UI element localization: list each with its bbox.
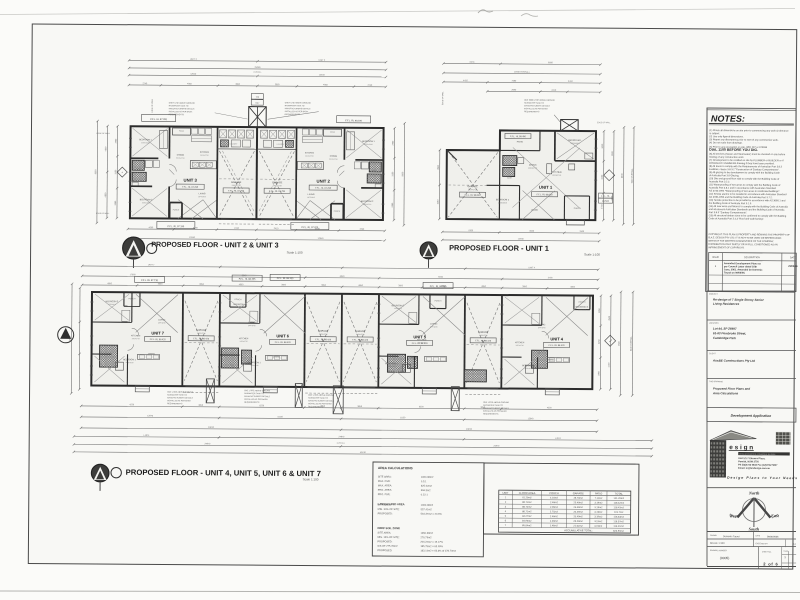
svg-text:THIS DRAWING: THIS DRAWING [709, 380, 723, 383]
svg-text:KITCHEN: KITCHEN [305, 152, 315, 154]
svg-text:7.11m2: 7.11m2 [595, 497, 603, 500]
svg-text:366.3m2: 366.3m2 [421, 489, 431, 492]
svg-text:F.F.L. RL 98.420: F.F.L. RL 98.420 [193, 338, 210, 340]
svg-text:70b: 70b [256, 97, 259, 99]
svg-text:REQUIREMENTS: REQUIREMENTS [285, 114, 301, 116]
svg-text:12640: 12640 [190, 74, 197, 76]
svg-text:3150x3010: 3150x3010 [578, 309, 586, 311]
svg-text:MANUFACTURER'S DETAILS: MANUFACTURER'S DETAILS [483, 407, 509, 410]
svg-text:F.F.L. RL 98.420: F.F.L. RL 98.420 [150, 339, 167, 341]
svg-text:24870: 24870 [466, 429, 473, 431]
svg-text:3.19m2: 3.19m2 [594, 520, 603, 523]
svg-text:557.41m2: 557.41m2 [421, 508, 433, 511]
svg-text:Unit 5/1-7 Elouera Place,: Unit 5/1-7 Elouera Place, [738, 457, 765, 460]
svg-text:3.19m2: 3.19m2 [594, 501, 603, 504]
svg-text:BEDROOM 1: BEDROOM 1 [139, 139, 152, 141]
svg-text:2.46m2: 2.46m2 [550, 501, 559, 504]
svg-text:25.49m2: 25.49m2 [574, 501, 584, 504]
svg-text:RAINWATER TANK TO: RAINWATER TANK TO [483, 404, 503, 407]
svg-text:F.F.L. RL 99.030: F.F.L. RL 99.030 [537, 194, 554, 196]
svg-text:UNIT 3: UNIT 3 [184, 178, 198, 183]
svg-text:9300 OVERALL: 9300 OVERALL [630, 335, 633, 351]
svg-text:2.46m2: 2.46m2 [550, 506, 559, 509]
svg-text:OPTIONS: OPTIONS [198, 196, 206, 198]
svg-text:3150x3010: 3150x3010 [498, 202, 507, 204]
svg-text:UNIT 6: UNIT 6 [276, 333, 289, 338]
svg-text:2410x2710: 2410x2710 [516, 345, 524, 347]
svg-text:NOTES:: NOTES: [711, 114, 745, 124]
svg-text:3150x3010: 3150x3010 [364, 144, 372, 146]
svg-text:PATIO: PATIO [595, 491, 602, 495]
svg-text:UNIT 4: UNIT 4 [550, 336, 563, 341]
svg-text:South: South [749, 526, 760, 531]
svg-text:Email: in@bmdesign.com.au: Email: in@bmdesign.com.au [738, 468, 770, 470]
svg-text:REQUIREMENTS: REQUIREMENTS [167, 403, 183, 405]
svg-text:(4) Do not scale from drawings: (4) Do not scale from drawings. [709, 141, 743, 144]
svg-text:MIN. 15% OF SITE:: MIN. 15% OF SITE: [377, 536, 399, 539]
svg-text:5450x2710: 5450x2710 [319, 334, 327, 336]
svg-text:L4974: L4974 [144, 435, 151, 437]
svg-text:GARAGE: GARAGE [478, 331, 488, 334]
svg-text:ACCUMULATIVE TOTAL:: ACCUMULATIVE TOTAL: [564, 529, 593, 532]
svg-text:09/09/2006: 09/09/2006 [767, 536, 779, 538]
svg-text:ONE LITRE ABOVE GROUND: ONE LITRE ABOVE GROUND [483, 401, 509, 404]
svg-text:3.19m2: 3.19m2 [594, 506, 603, 509]
svg-text:185.79m2 = 65.09%: 185.79m2 = 65.09% [420, 545, 443, 548]
svg-text:DRAWING NUMBER: DRAWING NUMBER [710, 549, 728, 552]
svg-text:Tourel on 09/06/06.: Tourel on 09/06/06. [724, 271, 746, 274]
svg-text:Domenic Tauroi: Domenic Tauroi [723, 535, 740, 538]
svg-text:EDGE OF WALL: EDGE OF WALL [151, 99, 154, 112]
svg-text:UNIT 7: UNIT 7 [148, 264, 155, 266]
svg-text:12640: 12640 [147, 415, 154, 417]
svg-text:FLOOR AREA: FLOOR AREA [519, 491, 536, 495]
svg-text:3010x2710: 3010x2710 [176, 158, 184, 160]
svg-text:PRO. AREA:: PRO. AREA: [378, 489, 392, 492]
svg-text:EDGE OF WALL: EDGE OF WALL [96, 212, 109, 215]
svg-text:F.F.L. HL 98.335: F.F.L. HL 98.335 [239, 279, 256, 281]
svg-text:86.72m2: 86.72m2 [522, 506, 532, 509]
svg-text:84.95m2: 84.95m2 [522, 520, 532, 523]
svg-text:4.16m2: 4.16m2 [550, 496, 559, 499]
svg-text:MANUFACTURER'S DETAILS: MANUFACTURER'S DETAILS [285, 107, 311, 110]
svg-text:823.94m2: 823.94m2 [613, 530, 624, 533]
svg-text:F.F.L. HL 97.295: F.F.L. HL 97.295 [315, 188, 332, 190]
svg-text:DESCRIPTION: DESCRIPTION [744, 257, 760, 259]
svg-text:24870: 24870 [204, 443, 211, 445]
svg-text:ISSUE: ISSUE [783, 551, 788, 553]
svg-text:F.F.L. RL 97.795: F.F.L. RL 97.795 [269, 191, 286, 193]
svg-text:SITE AREA:: SITE AREA: [378, 504, 392, 507]
svg-text:Development Application: Development Application [731, 414, 772, 418]
svg-text:F.F.L. RL 97.735: F.F.L. RL 97.735 [141, 280, 158, 282]
svg-text:SITE AREA:: SITE AREA: [378, 476, 392, 479]
svg-text:KITCHEN: KITCHEN [131, 335, 141, 337]
svg-text:F.F.L. HL 97.295: F.F.L. HL 97.295 [150, 119, 167, 121]
svg-text:INSTALLED AS PER BASIX: INSTALLED AS PER BASIX [167, 399, 191, 402]
svg-text:F.F.L. RL 98.420: F.F.L. RL 98.420 [275, 342, 292, 344]
svg-text:5450x2710: 5450x2710 [468, 189, 477, 191]
svg-text:GARAGE: GARAGE [573, 491, 584, 495]
svg-text:F.F.L. RL 99.040: F.F.L. RL 99.040 [465, 195, 482, 197]
svg-text:UNIT 3: UNIT 3 [190, 59, 197, 61]
svg-text:3150x3010: 3150x3010 [126, 362, 134, 364]
svg-text:564.37m2 = 20.3%: 564.37m2 = 20.3% [421, 513, 443, 516]
svg-text:24870: 24870 [493, 445, 500, 447]
svg-text:11150: 11150 [400, 417, 406, 419]
svg-text:INSTALLED AS PER BASIX: INSTALLED AS PER BASIX [524, 107, 548, 110]
svg-text:OVERALL: OVERALL [253, 71, 261, 74]
svg-text:2410x2710: 2410x2710 [200, 155, 208, 157]
svg-text:BEDROOM 1: BEDROOM 1 [362, 141, 375, 143]
svg-text:118.42m2: 118.42m2 [614, 506, 625, 509]
svg-text:PROPOSED:: PROPOSED: [377, 540, 392, 543]
svg-text:7017: 7017 [255, 103, 259, 105]
svg-text:2.46m2: 2.46m2 [550, 524, 559, 527]
svg-text:3.19m2: 3.19m2 [594, 511, 603, 514]
svg-text:113.21m2: 113.21m2 [613, 525, 624, 528]
svg-text:INSTALLED AS PER BASIX: INSTALLED AS PER BASIX [244, 398, 268, 401]
svg-text:MAX. AREA:: MAX. AREA: [378, 484, 392, 487]
svg-text:Ph (02)4732 5832 Fax (02)4: Ph (02)4732 5832 Fax (02)4732 5837 [738, 464, 778, 467]
svg-text:F.F.L. RL 99.580: F.F.L. RL 99.580 [430, 286, 447, 288]
svg-text:PROPOSED FLOOR - UNIT 4, UNIT: PROPOSED FLOOR - UNIT 4, UNIT 5, UNIT 6 … [126, 468, 321, 478]
svg-text:0.22:1: 0.22:1 [421, 493, 429, 496]
svg-text:3150x2710: 3150x2710 [142, 202, 150, 204]
svg-text:CLIENT: CLIENT [709, 353, 717, 355]
svg-text:1650.38m2: 1650.38m2 [421, 504, 434, 507]
svg-text:MANUFACTURER'S DETAILS: MANUFACTURER'S DETAILS [524, 104, 550, 107]
svg-text:RAINWATER TANK TO: RAINWATER TANK TO [167, 393, 187, 396]
svg-text:119.7m2: 119.7m2 [614, 511, 624, 514]
svg-text:Scale 1:100: Scale 1:100 [287, 251, 303, 255]
svg-text:INSTALLED AS PER BASIX: INSTALLED AS PER BASIX [483, 410, 507, 413]
svg-text:5450x2710: 5450x2710 [479, 335, 487, 337]
svg-text:206.22m2 = 15.17%: 206.22m2 = 15.17% [420, 541, 443, 544]
svg-text:MANUFACTURER'S DETAILS: MANUFACTURER'S DETAILS [308, 399, 334, 402]
svg-text:PROJECT: PROJECT [709, 294, 719, 296]
svg-text:OPTIONS: OPTIONS [158, 322, 166, 324]
svg-text:LIVING: LIVING [308, 194, 315, 196]
svg-text:CHECKED BY: CHECKED BY [755, 543, 768, 545]
svg-text:B.A.E. DESIGN PTY LTD. IT IS N: B.A.E. DESIGN PTY LTD. IT IS NOT TO BE U… [708, 236, 781, 240]
svg-text:116.53m2: 116.53m2 [613, 516, 624, 519]
svg-text:ONE LITRE ABOVE GROUND: ONE LITRE ABOVE GROUND [167, 391, 193, 394]
svg-text:BEDROOM 2: BEDROOM 2 [140, 199, 153, 201]
svg-text:REQUIREMENTS: REQUIREMENTS [524, 111, 540, 113]
svg-text:F.F.L. RL 98.420: F.F.L. RL 98.420 [475, 340, 492, 342]
svg-text:5450x2710: 5450x2710 [273, 185, 282, 187]
svg-text:Lot 44, SP 26497: Lot 44, SP 26497 [713, 327, 737, 331]
svg-text:UNIT 2: UNIT 2 [319, 60, 326, 62]
svg-text:3.19m2: 3.19m2 [594, 515, 603, 518]
svg-text:RAINWATER TANK TO: RAINWATER TANK TO [524, 101, 544, 104]
svg-text:GARAGE: GARAGE [355, 330, 365, 333]
svg-text:UNIT 7: UNIT 7 [151, 330, 164, 335]
svg-text:F.F.L. HL: F.F.L. HL [601, 196, 610, 198]
svg-text:12640: 12640 [319, 74, 326, 76]
svg-text:2.46m2: 2.46m2 [550, 520, 559, 523]
svg-text:SCALE 1:100: SCALE 1:100 [710, 542, 725, 545]
svg-text:MANUFACTURER'S DETAILS: MANUFACTURER'S DETAILS [169, 107, 195, 110]
svg-text:EDGE OF WALL: EDGE OF WALL [441, 92, 444, 105]
svg-text:UNIT 2: UNIT 2 [317, 179, 331, 184]
svg-text:12640: 12640 [528, 418, 535, 420]
svg-text:LOCATION: LOCATION [709, 322, 719, 325]
svg-text:RAINWATER TANK TO: RAINWATER TANK TO [169, 104, 189, 107]
svg-text:UNIT 4: UNIT 4 [528, 267, 535, 269]
svg-text:26.79m2: 26.79m2 [574, 497, 584, 500]
svg-text:2410x2710: 2410x2710 [305, 155, 313, 157]
svg-text:AusBE Constructions Pty Ltd: AusBE Constructions Pty Ltd [712, 359, 755, 363]
svg-text:North: North [748, 490, 760, 495]
svg-text:49740: 49740 [360, 452, 367, 454]
svg-text:GARAGE: GARAGE [467, 185, 478, 188]
svg-text:REQUIREMENTS: REQUIREMENTS [483, 413, 499, 415]
svg-text:183.14m2 = 66.3% of 278.70m2: 183.14m2 = 66.3% of 278.70m2 [420, 549, 456, 552]
svg-text:MANUFACTURER'S DETAILS: MANUFACTURER'S DETAILS [244, 395, 270, 398]
svg-text:Area Calculations: Area Calculations [712, 391, 739, 395]
svg-text:61-63 Pembroke Street,: 61-63 Pembroke Street, [713, 331, 746, 335]
svg-text:GARAGE: GARAGE [231, 181, 242, 184]
svg-text:F.F.L. RL 98.190: F.F.L. RL 98.190 [345, 120, 362, 122]
svg-text:3150x3010: 3150x3010 [141, 142, 149, 144]
svg-text:DRAWN: DRAWN [710, 534, 717, 537]
svg-text:BEDROOM 3: BEDROOM 3 [106, 301, 119, 303]
svg-text:PROPOSED:: PROPOSED: [378, 512, 393, 515]
svg-text:825.02m2: 825.02m2 [421, 485, 433, 488]
svg-text:SHEET NO.: SHEET NO. [762, 551, 772, 553]
svg-text:3150x2710: 3150x2710 [363, 204, 371, 206]
svg-text:F.F.L. HL 97.295: F.F.L. HL 97.295 [182, 187, 199, 189]
svg-text:ISSUE: ISSUE [712, 257, 719, 259]
svg-text:KITCHEN: KITCHEN [200, 152, 210, 154]
svg-text:DIAL 1100 BEFORE YOU DIG.: DIAL 1100 BEFORE YOU DIG. [709, 148, 758, 152]
svg-text:9300 OVERALL: 9300 OVERALL [631, 168, 634, 184]
svg-text:Proposed Floor Plans and: Proposed Floor Plans and [713, 387, 750, 391]
svg-text:GREY LINE ABOVE GROUND: GREY LINE ABOVE GROUND [169, 101, 196, 104]
svg-text:MANUFACTURER'S DETAILS: MANUFACTURER'S DETAILS [167, 396, 193, 399]
svg-text:118.42m2: 118.42m2 [614, 502, 625, 505]
svg-text:26.49m2: 26.49m2 [573, 520, 583, 523]
svg-text:F.F.L. RL 97.020: F.F.L. RL 97.020 [302, 227, 319, 229]
svg-text:14940 OVERALL: 14940 OVERALL [514, 70, 531, 73]
svg-text:LIVING: LIVING [199, 193, 206, 195]
svg-text:UNIT: UNIT [503, 491, 509, 495]
svg-text:F.F.L. RL 98.420: F.F.L. RL 98.420 [315, 339, 332, 341]
svg-text:RAINWATER TANK TO: RAINWATER TANK TO [244, 392, 264, 395]
svg-text:DINING: DINING [330, 156, 338, 158]
svg-text:12640: 12640 [189, 237, 196, 239]
svg-text:SITE AREA:: SITE AREA: [377, 532, 391, 535]
svg-text:25.49m2: 25.49m2 [573, 515, 583, 518]
svg-text:2410x2710: 2410x2710 [418, 342, 426, 344]
svg-text:PATIO: PATIO [179, 130, 185, 133]
svg-text:0.5:1: 0.5:1 [421, 480, 427, 483]
svg-text:F.F.L. RL 98.335: F.F.L. RL 98.335 [277, 278, 294, 280]
svg-text:DATE: DATE [790, 256, 796, 259]
svg-text:5450x2710: 5450x2710 [356, 334, 364, 336]
svg-text:PATIO: PATIO [517, 141, 524, 144]
svg-text:61.29m2: 61.29m2 [522, 496, 532, 499]
svg-text:GARAGE: GARAGE [196, 329, 206, 332]
svg-text:PROPOSED FLOOR - UNIT 1: PROPOSED FLOOR - UNIT 1 [449, 243, 549, 253]
svg-text:29/06/06: 29/06/06 [788, 265, 798, 268]
svg-text:DEEP SOIL ZONE: DEEP SOIL ZONE [378, 526, 401, 530]
svg-text:F.F.L. RL 97.190: F.F.L. RL 97.190 [168, 226, 185, 228]
svg-text:PATIO: PATIO [330, 131, 336, 134]
svg-text:DISTRIBUTION ONLY PARTLY OR IN: DISTRIBUTION ONLY PARTLY OR IN FULL COND… [708, 243, 778, 247]
svg-text:25.49m2: 25.49m2 [574, 506, 584, 509]
svg-text:INSTALLED AS PER BASIX: INSTALLED AS PER BASIX [285, 110, 309, 113]
svg-text:11150: 11150 [277, 416, 283, 418]
svg-text:PORCH: PORCH [574, 208, 582, 210]
svg-text:DATE: DATE [755, 534, 760, 537]
svg-text:WITHOUT THE WRITTEN CONSENT/FE: WITHOUT THE WRITTEN CONSENT/FEE OF THE C… [708, 240, 774, 243]
svg-text:BATH: BATH [507, 176, 512, 179]
svg-text:DINING: DINING [547, 359, 554, 361]
svg-text:Cambridge Park: Cambridge Park [713, 336, 736, 340]
svg-text:GREY LINE ABOVE GROUND: GREY LINE ABOVE GROUND [285, 101, 312, 104]
svg-text:24870: 24870 [339, 436, 346, 438]
svg-text:OPTIONS: OPTIONS [248, 325, 256, 327]
svg-text:COPYRIGHT: THIS PLAN IS PROPER: COPYRIGHT: THIS PLAN IS PROPERTY AND REM… [708, 233, 790, 237]
svg-text:86.71m2: 86.71m2 [522, 510, 532, 513]
svg-text:2410x2710: 2410x2710 [240, 341, 248, 343]
svg-text:3010x2710: 3010x2710 [329, 159, 337, 161]
svg-text:S/S OF 275.78m2:: S/S OF 275.78m2: [377, 545, 398, 548]
svg-text:INFRINGEMENT OF COPYRIGHT.: INFRINGEMENT OF COPYRIGHT. [708, 247, 744, 249]
svg-text:KITCHEN: KITCHEN [515, 342, 525, 344]
svg-text:84.27m2: 84.27m2 [522, 515, 532, 518]
svg-text:RAINWATER TANK TO: RAINWATER TANK TO [308, 396, 328, 399]
svg-text:276.79m2: 276.79m2 [420, 536, 432, 539]
svg-text:5450x2710: 5450x2710 [197, 333, 205, 335]
svg-text:Scale 1:100: Scale 1:100 [303, 477, 319, 481]
svg-text:Code of Australia Part 3.4.3 ": Code of Australia Part 3.4.3 "Roof and w… [709, 217, 765, 220]
svg-text:PORCH: PORCH [334, 211, 341, 213]
svg-text:BEDROOM 2: BEDROOM 2 [496, 199, 510, 201]
svg-text:F.F.L. RL 97.795: F.F.L. RL 97.795 [228, 191, 245, 193]
svg-text:GARAGE: GARAGE [272, 181, 283, 184]
svg-text:PORCH: PORCH [435, 301, 442, 303]
svg-text:West: West [729, 513, 738, 518]
svg-text:Penrith, NSW 2750: Penrith, NSW 2750 [738, 460, 759, 463]
svg-text:25280: 25280 [255, 67, 262, 69]
svg-text:121.29m2: 121.29m2 [614, 497, 625, 500]
svg-text:PORCH: PORCH [173, 210, 180, 212]
svg-text:East: East [770, 513, 780, 518]
svg-text:14940: 14940 [518, 239, 525, 241]
svg-text:L4974: L4974 [555, 438, 562, 440]
svg-text:REQUIREMENTS: REQUIREMENTS [244, 402, 260, 404]
svg-text:2410x2710: 2410x2710 [132, 338, 140, 340]
svg-text:PRO. FSR:: PRO. FSR: [378, 493, 391, 496]
svg-text:DINING: DINING [177, 155, 185, 157]
svg-text:2.75m2: 2.75m2 [550, 510, 559, 513]
svg-text:ONE LITRE ABOVE GROUND: ONE LITRE ABOVE GROUND [308, 394, 334, 397]
svg-text:ONE 5000 LITRE ABOVE GROUND: ONE 5000 LITRE ABOVE GROUND [524, 99, 555, 102]
svg-text:PORCH: PORCH [549, 491, 559, 495]
svg-text:EDGE OF WALL: EDGE OF WALL [597, 121, 610, 124]
svg-text:OVERALL: OVERALL [337, 442, 345, 445]
svg-text:3.19m2: 3.19m2 [594, 525, 603, 528]
svg-text:PORCH: PORCH [235, 299, 242, 301]
svg-text:MIN. 30% OF SITE:: MIN. 30% OF SITE: [378, 508, 400, 511]
svg-text:PROPOSED:: PROPOSED: [377, 549, 392, 552]
svg-text:1650.38m2: 1650.38m2 [421, 476, 434, 479]
svg-text:OPTIONS: OPTIONS [307, 197, 315, 199]
svg-text:RAINWATER TANK TO: RAINWATER TANK TO [285, 104, 305, 107]
svg-text:F.F.L. HL 99.450: F.F.L. HL 99.450 [510, 136, 527, 138]
svg-text:5450x2710: 5450x2710 [232, 185, 241, 187]
svg-text:KITCHEN: KITCHEN [417, 339, 427, 341]
svg-text:86.72m2: 86.72m2 [522, 501, 532, 504]
svg-text:KITCHEN: KITCHEN [552, 172, 562, 174]
svg-text:TOTAL: TOTAL [615, 492, 624, 496]
svg-text:INSTALLED AS PER BASIX: INSTALLED AS PER BASIX [169, 110, 193, 113]
svg-text:PROPOSED FLOOR - UNIT 2 & UNIT: PROPOSED FLOOR - UNIT 2 & UNIT 3 [151, 241, 278, 250]
svg-text:UNIT 1: UNIT 1 [539, 185, 553, 190]
svg-text:17060: 17060 [130, 274, 137, 276]
svg-text:KITCHEN: KITCHEN [239, 338, 249, 340]
svg-text:25.49m2: 25.49m2 [573, 511, 583, 514]
svg-text:GARAGE: GARAGE [318, 330, 328, 333]
svg-text:(9005): (9005) [720, 556, 730, 560]
svg-text:2 of 6: 2 of 6 [763, 561, 778, 566]
svg-text:2.46m2: 2.46m2 [550, 515, 559, 518]
svg-text:OPTIONS: OPTIONS [538, 327, 546, 329]
svg-text:ONE LITRE ABOVE GROUND: ONE LITRE ABOVE GROUND [244, 389, 270, 392]
svg-text:12640: 12640 [318, 238, 325, 240]
svg-text:Scale 1:100: Scale 1:100 [584, 253, 600, 257]
svg-text:Design Plans to Your Needs: Design Plans to Your Needs [727, 476, 798, 481]
svg-text:BEDROOM 2: BEDROOM 2 [361, 201, 374, 203]
svg-text:BEDROOM 1: BEDROOM 1 [568, 140, 582, 142]
svg-text:F.F.L. RL 98.420: F.F.L. RL 98.420 [352, 340, 369, 342]
svg-text:(1) Check all dimensions on si: (1) Check all dimensions on site prior t… [709, 129, 789, 133]
svg-text:BEDROOM 1: BEDROOM 1 [123, 359, 136, 361]
svg-text:EDGE OF WALL: EDGE OF WALL [97, 132, 110, 135]
svg-text:2410x2710: 2410x2710 [552, 175, 561, 177]
svg-text:Living Residences: Living Residences [713, 302, 740, 306]
svg-text:116.37m2: 116.37m2 [613, 520, 624, 523]
svg-text:24870: 24870 [208, 427, 215, 429]
svg-text:85.64m2: 85.64m2 [522, 524, 532, 527]
svg-text:21.02m2: 21.02m2 [573, 525, 583, 528]
svg-text:AREA CALCULATIONS: AREA CALCULATIONS [378, 466, 413, 470]
svg-text:MAX. FSR:: MAX. FSR: [378, 480, 391, 483]
svg-text:F.F.L. RL 98.420: F.F.L. RL 98.420 [549, 345, 566, 347]
svg-text:1650.38m2: 1650.38m2 [420, 532, 433, 535]
